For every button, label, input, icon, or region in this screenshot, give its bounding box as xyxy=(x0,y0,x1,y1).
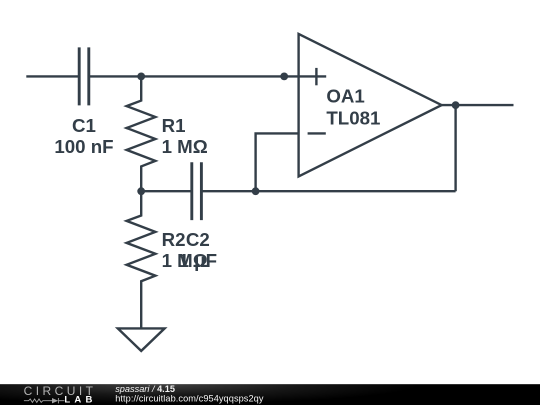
svg-text:1 μF: 1 μF xyxy=(179,250,217,271)
svg-text:R2: R2 xyxy=(162,229,186,250)
svg-text:R1: R1 xyxy=(162,115,186,136)
svg-text:C1: C1 xyxy=(72,115,96,136)
svg-text:OA1: OA1 xyxy=(326,85,364,106)
svg-text:spassari / 4.15: spassari / 4.15 xyxy=(115,384,175,394)
svg-text:1 MΩ: 1 MΩ xyxy=(162,136,208,157)
svg-text:http://circuitlab.com/c954yqqs: http://circuitlab.com/c954yqqsps2qy xyxy=(115,394,264,404)
svg-text:100 nF: 100 nF xyxy=(54,136,113,157)
svg-text:LAB: LAB xyxy=(64,394,96,405)
svg-text:TL081: TL081 xyxy=(326,107,380,128)
svg-text:C2: C2 xyxy=(186,229,210,250)
